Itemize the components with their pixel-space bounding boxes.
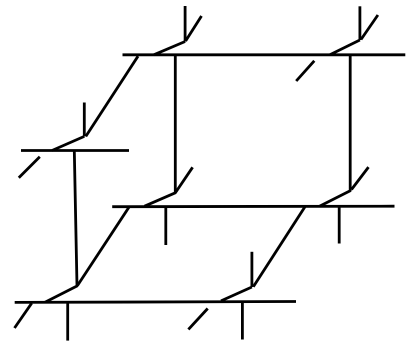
node V2 vertical stub above [358,6,361,40]
wire bottom lattice line H4 [15,300,296,304]
wire diagonal D from node V6 kink to H3 [78,206,130,285]
node V4 vertical stub below [164,207,167,246]
node V7 detached diagonal stub below [188,309,207,330]
wire vertical edge VB from H1 to node V5 kink [320,55,351,206]
node V3 detached diagonal stub below [19,157,40,178]
wire top lattice line H1 [123,53,406,56]
wire middle lattice line H3 [112,205,394,208]
node V7 vertical stub below [241,302,244,340]
node V2 diagonal stub above [361,15,378,40]
wire vertical edge VA from H1 to node V4 kink [145,55,176,206]
node V1 diagonal stub above [186,16,202,41]
node V5 vertical stub below [338,207,341,244]
wire diagonal D2 from node V7 kink to node V5 [253,206,305,286]
node V1 kink segment [154,42,185,55]
node V4 diagonal stub above [175,167,192,193]
node V6 detached diagonal stub below [15,303,32,328]
wire vertical edge VC from H2 to node V6 kink [45,151,77,303]
node V7 vertical stub above [250,252,253,287]
wire diagonal D1 from node V3 kink to node V1 [86,56,138,136]
wire middle-left lattice line H2 [21,149,129,152]
node V5 diagonal stub above [352,167,369,189]
node V7 kink segment [221,287,252,301]
node V2 detached diagonal stub below [296,61,314,81]
node V3 vertical stub above [83,103,86,137]
node V6 vertical stub below [66,302,69,341]
node V3 kink segment [52,136,84,150]
node V2 kink segment [330,40,360,55]
node V1 vertical stub above [184,6,187,42]
